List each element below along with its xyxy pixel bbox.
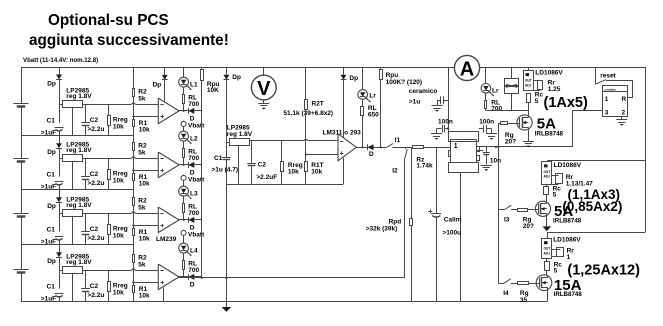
svg-text:Dp: Dp bbox=[232, 74, 241, 81]
resistor Rreg block3 10k bbox=[108, 213, 110, 224]
wire cell tap 1 bbox=[21, 135, 133, 137]
wire Q2 drain bbox=[546, 195, 548, 202]
svg-text:Rg: Rg bbox=[520, 290, 529, 297]
diode D block3 bbox=[188, 217, 190, 223]
diode Dp5 bbox=[226, 67, 228, 75]
resistor Rr3 1 bbox=[552, 249, 561, 251]
svg-text:5: 5 bbox=[554, 268, 558, 275]
LED Lr ammeter bbox=[485, 67, 487, 84]
svg-text:C1: C1 bbox=[214, 155, 223, 162]
svg-text:reg 1.8V: reg 1.8V bbox=[66, 147, 92, 154]
wire divider R2T-R1T bbox=[305, 110, 307, 162]
svg-text:OUT: OUT bbox=[544, 170, 551, 174]
resistor Rreg section5 10k bbox=[281, 141, 283, 162]
svg-text:L3: L3 bbox=[190, 190, 198, 197]
regulator LP2985 U3 bbox=[63, 210, 83, 217]
svg-text:5k: 5k bbox=[138, 204, 146, 211]
svg-text:5k: 5k bbox=[138, 149, 146, 156]
switch I1 bbox=[387, 144, 393, 148]
wire reset pin3 bbox=[573, 110, 602, 112]
svg-text:5: 5 bbox=[553, 192, 557, 199]
resistor Rg2 20 bbox=[511, 209, 518, 211]
capacitor C2 block4 bbox=[85, 270, 87, 288]
svg-text:C2: C2 bbox=[258, 161, 267, 168]
svg-text:700: 700 bbox=[188, 267, 199, 274]
svg-text:2: 2 bbox=[622, 110, 626, 117]
resistor R1 block4 10k bbox=[133, 286, 135, 293]
capacitor C1 section5 bbox=[222, 157, 231, 159]
resistor Rpu 10K bbox=[201, 67, 203, 69]
svg-text:Rreg: Rreg bbox=[113, 170, 128, 177]
svg-text:V: V bbox=[257, 78, 271, 100]
svg-text:C1: C1 bbox=[47, 118, 56, 125]
resistor Rc1 5 bbox=[527, 94, 531, 103]
wire I2 column bbox=[404, 160, 406, 161]
svg-text:C2: C2 bbox=[90, 117, 99, 124]
wire reg1 output bus bbox=[83, 104, 131, 106]
diode D main bbox=[367, 144, 369, 150]
voltmeter V bbox=[263, 67, 265, 75]
resistor R1 block2 10k bbox=[133, 174, 135, 181]
wire top rail left of ammeter bbox=[21, 67, 455, 69]
svg-text:LD1086V: LD1086V bbox=[554, 162, 582, 169]
op-amp comparator block4 bbox=[158, 264, 179, 290]
op-amp comparator block1 bbox=[158, 98, 179, 124]
wire pkg1 from rail bbox=[528, 67, 530, 71]
resistor R2 block4 5k bbox=[133, 245, 135, 255]
svg-text:>1uF: >1uF bbox=[41, 129, 56, 136]
wire Q2 source arrow bbox=[546, 216, 548, 226]
wire IC1 output row bbox=[477, 150, 483, 152]
svg-text:Vbatt (11-14.4V: nom.12.8): Vbatt (11-14.4V: nom.12.8) bbox=[23, 57, 98, 64]
wire LM311 ground pin bbox=[343, 158, 345, 184]
svg-text:35: 35 bbox=[520, 297, 528, 304]
node Vbatt terminal 4 bbox=[183, 229, 185, 232]
svg-text:Lr: Lr bbox=[369, 93, 376, 100]
svg-text:contatto: contatto bbox=[604, 88, 616, 92]
ground of reset box bbox=[621, 116, 623, 119]
battery cell B3 bbox=[13, 213, 28, 215]
battery cell B1 bbox=[13, 103, 28, 105]
wire Q3 drain bbox=[546, 271, 548, 275]
reset logic box bbox=[603, 86, 628, 117]
wire Q3 source to bottom rail bbox=[547, 291, 549, 302]
wire reg5 output bus to comparator bbox=[250, 140, 304, 142]
resistor R1 block1 10k bbox=[133, 120, 135, 127]
wire wired-OR row to I2 column bbox=[178, 277, 405, 279]
svg-text:Optional-su PCS: Optional-su PCS bbox=[48, 12, 169, 29]
resistor RL 650 bbox=[362, 99, 364, 107]
wire section5 ground bus bbox=[226, 184, 343, 186]
wire Q1 drain bbox=[528, 102, 530, 115]
wire divider to +input LM311 bbox=[306, 154, 338, 156]
diode Dp2 bbox=[59, 136, 61, 144]
switch I4 bbox=[498, 283, 504, 285]
diode Dp comparator supply bbox=[343, 67, 345, 75]
op-amp comparator block2 bbox=[158, 152, 179, 178]
ground of voltmeter bbox=[263, 100, 265, 103]
svg-text:ADJ: ADJ bbox=[544, 251, 551, 255]
svg-text:>2.2u: >2.2u bbox=[88, 126, 105, 133]
capacitor Calim >100u bbox=[436, 147, 438, 213]
svg-text:100K? (120): 100K? (120) bbox=[386, 79, 423, 86]
svg-text:>1uF: >1uF bbox=[41, 183, 56, 190]
battery cell B2 bbox=[13, 158, 28, 160]
svg-text:700: 700 bbox=[491, 106, 502, 113]
svg-text:D: D bbox=[369, 151, 374, 158]
svg-text:1.25: 1.25 bbox=[548, 86, 561, 93]
regulator LD1086V U6 bbox=[524, 71, 534, 91]
svg-text:Dp: Dp bbox=[47, 203, 56, 210]
svg-text:>32k (39k): >32k (39k) bbox=[366, 225, 398, 232]
svg-text:10K: 10K bbox=[207, 87, 219, 94]
svg-text:20?: 20? bbox=[505, 139, 516, 146]
switch I3 bbox=[498, 209, 505, 211]
svg-text:C2: C2 bbox=[90, 283, 99, 290]
transistor Q2 IRLB8748 5A bbox=[535, 201, 550, 216]
resistor Rreg block4 10k bbox=[108, 270, 110, 281]
svg-text:reg 1.8V: reg 1.8V bbox=[66, 202, 92, 209]
wire cell tap 3 bbox=[21, 244, 133, 246]
shunt box bbox=[511, 67, 513, 78]
svg-text:>1u: >1u bbox=[409, 98, 420, 105]
svg-text:>2.2u: >2.2u bbox=[88, 235, 105, 242]
LED L1 bbox=[183, 67, 185, 77]
battery cell B4 bbox=[13, 269, 28, 271]
svg-text:R2T: R2T bbox=[312, 100, 324, 107]
svg-text:1: 1 bbox=[454, 143, 458, 150]
wire section5 ground down bbox=[226, 184, 228, 301]
svg-text:D: D bbox=[190, 115, 195, 122]
resistor R2 block3 5k bbox=[133, 190, 135, 198]
diode Dp op-amp supply bbox=[164, 67, 166, 75]
op-amp comparator block3 bbox=[158, 207, 179, 233]
capacitor 100n left bbox=[447, 127, 449, 129]
wire right border bbox=[645, 67, 647, 232]
svg-text:Dp: Dp bbox=[47, 80, 56, 87]
svg-text:LM239: LM239 bbox=[156, 236, 177, 243]
diode Dp3 bbox=[59, 190, 61, 198]
svg-text:10k: 10k bbox=[139, 181, 150, 188]
resistor Rg3 35 bbox=[511, 283, 518, 285]
IC 1 block bbox=[449, 132, 479, 142]
svg-text:ADJ: ADJ bbox=[544, 175, 551, 179]
resistor Rr1 1.25 bbox=[534, 80, 540, 82]
svg-text:Rreg: Rreg bbox=[113, 116, 128, 123]
svg-text:I2: I2 bbox=[392, 168, 398, 175]
diode Dp4 bbox=[59, 245, 61, 253]
transistor Q3 IRLB8748 15A bbox=[536, 275, 552, 291]
svg-text:Dp: Dp bbox=[349, 75, 358, 82]
resistor RL block1 700 bbox=[183, 87, 185, 95]
svg-text:100n: 100n bbox=[479, 118, 494, 125]
capacitor 10n bbox=[486, 147, 488, 152]
wire bottom rail bbox=[21, 301, 547, 303]
svg-text:C1: C1 bbox=[47, 172, 56, 179]
svg-text:Rreg: Rreg bbox=[113, 225, 128, 232]
wire I1 to Rz bbox=[392, 147, 413, 149]
svg-text:Dp: Dp bbox=[47, 149, 56, 156]
diode Dp1 bbox=[59, 67, 61, 75]
svg-text:10k: 10k bbox=[113, 178, 124, 185]
ammeter A bbox=[454, 55, 479, 80]
diode D block1 bbox=[188, 108, 190, 114]
svg-text:C2: C2 bbox=[90, 171, 99, 178]
wire charge bus mid bbox=[547, 160, 645, 162]
wire divider to +input block1 bbox=[133, 116, 158, 118]
svg-text:LD1086V: LD1086V bbox=[553, 237, 581, 244]
capacitor C2 block2 bbox=[85, 158, 87, 176]
svg-text:10k: 10k bbox=[139, 236, 150, 243]
resistor Rreg block2 10k bbox=[108, 158, 110, 169]
wire divider to +input block3 bbox=[133, 225, 158, 227]
resistor RL block4 700 bbox=[183, 253, 185, 261]
svg-text:(1Ax5): (1Ax5) bbox=[544, 95, 588, 111]
wire pkg3 input bbox=[547, 232, 549, 238]
svg-text:5k: 5k bbox=[138, 261, 146, 268]
wire IC1 bottom pin bbox=[460, 173, 462, 302]
wire bbox=[21, 107, 23, 159]
ground arrow under bottom rail bbox=[226, 302, 228, 308]
wire LM311 output row bbox=[356, 147, 367, 149]
resistor Rr2 1.13/1.47 bbox=[551, 175, 559, 177]
node Vbatt terminal 3 bbox=[183, 174, 185, 177]
capacitor 100n right bbox=[479, 128, 483, 130]
svg-text:10k: 10k bbox=[311, 169, 322, 176]
capacitor C1 block3 bbox=[55, 236, 64, 238]
regulator LD1086V U7 bbox=[542, 162, 552, 185]
svg-text:10k: 10k bbox=[113, 233, 124, 240]
resistor R2 block1 5k bbox=[133, 67, 135, 88]
svg-text:3: 3 bbox=[605, 110, 609, 117]
svg-text:D: D bbox=[190, 169, 195, 176]
wire wired-OR rail bbox=[201, 81, 203, 278]
svg-text:1: 1 bbox=[567, 254, 571, 261]
svg-text:reset: reset bbox=[600, 72, 616, 79]
wire divider to +input block4 bbox=[133, 282, 158, 284]
wire IC supply column bbox=[448, 67, 450, 131]
resistor R1 block3 10k bbox=[133, 229, 135, 236]
svg-text:D: D bbox=[190, 224, 195, 231]
svg-text:1: 1 bbox=[605, 96, 609, 103]
resistor Rz 1.74k bbox=[413, 146, 424, 149]
svg-text:Rreg: Rreg bbox=[113, 282, 128, 289]
wire charge bus low bbox=[547, 232, 645, 234]
svg-text:C1: C1 bbox=[47, 227, 56, 234]
wire gate rail up to Q1 gate bbox=[498, 123, 500, 147]
svg-text:LD1086V: LD1086V bbox=[535, 69, 563, 76]
svg-text:I3: I3 bbox=[504, 217, 510, 224]
capacitor ceramic >1u bbox=[444, 100, 449, 102]
svg-text:100n: 100n bbox=[438, 118, 453, 125]
wire reg3 output bus bbox=[83, 213, 131, 215]
switch reset bbox=[595, 67, 597, 84]
svg-text:5: 5 bbox=[535, 98, 539, 105]
svg-text:>1uF: >1uF bbox=[41, 295, 56, 302]
regulator LP2985 U4 bbox=[63, 267, 83, 274]
svg-text:>2.2u: >2.2u bbox=[88, 292, 105, 299]
wire output row block2 bbox=[179, 164, 188, 166]
svg-text:aggiunta successivamente!: aggiunta successivamente! bbox=[29, 32, 229, 49]
svg-text:C2: C2 bbox=[90, 226, 99, 233]
svg-text:10n: 10n bbox=[490, 157, 501, 164]
resistor Rpu 100K bbox=[380, 67, 382, 70]
svg-text:51.1k (39+6.8x2): 51.1k (39+6.8x2) bbox=[283, 110, 333, 117]
svg-text:10k: 10k bbox=[113, 124, 124, 131]
wire cell tap 2 bbox=[21, 189, 133, 191]
svg-text:L1: L1 bbox=[190, 81, 198, 88]
wire op-amp4 ground pin bbox=[163, 288, 165, 302]
wire Rz to IC1 bbox=[424, 147, 451, 149]
wire output row block1 bbox=[179, 110, 188, 112]
diode D block2 bbox=[188, 162, 190, 168]
svg-text:ADJ: ADJ bbox=[525, 83, 532, 87]
svg-text:reg 1.8V: reg 1.8V bbox=[227, 131, 253, 138]
regulator LD1086V U8 bbox=[542, 239, 552, 259]
svg-text:>100u: >100u bbox=[443, 230, 462, 237]
wire bbox=[21, 162, 23, 214]
wire pkg2 input bbox=[547, 161, 549, 162]
wire output row block3 bbox=[179, 219, 188, 221]
capacitor C2 section5 bbox=[251, 141, 253, 163]
svg-text:1.74k: 1.74k bbox=[416, 163, 433, 170]
svg-text:IRLB8748: IRLB8748 bbox=[553, 217, 582, 224]
svg-text:20?: 20? bbox=[523, 223, 534, 230]
capacitor C2 block1 bbox=[85, 104, 87, 122]
svg-text:700: 700 bbox=[188, 155, 199, 162]
wire divider to +input block2 bbox=[133, 170, 158, 172]
svg-text:I1: I1 bbox=[395, 137, 401, 144]
svg-text:Vbatt: Vbatt bbox=[188, 123, 205, 130]
svg-text:5k: 5k bbox=[138, 95, 146, 102]
resistor RL block2 700 bbox=[183, 141, 185, 149]
resistor R2T 51.1k bbox=[305, 67, 307, 100]
capacitor C1 block1 bbox=[55, 127, 64, 129]
wire drain node row bbox=[486, 110, 529, 112]
LED Lr bbox=[362, 67, 364, 90]
svg-text:OUT: OUT bbox=[544, 247, 551, 251]
wire bbox=[21, 217, 23, 269]
svg-text:Calim: Calim bbox=[444, 217, 462, 224]
resistor Rc3 5 bbox=[546, 258, 548, 261]
svg-text:IRLB8748: IRLB8748 bbox=[535, 131, 564, 138]
svg-text:IRLB8748: IRLB8748 bbox=[554, 291, 583, 298]
svg-text:Dp: Dp bbox=[47, 258, 56, 265]
wire reg4 output bus bbox=[83, 270, 131, 272]
svg-text:reg 1.8V: reg 1.8V bbox=[66, 93, 92, 100]
svg-text:10k: 10k bbox=[139, 127, 150, 134]
svg-text:ceramico: ceramico bbox=[409, 88, 438, 95]
resistor RL 700 ammeter bbox=[485, 93, 487, 100]
switch I2 bbox=[405, 147, 407, 149]
svg-text:700: 700 bbox=[188, 210, 199, 217]
wire reg5 ground pin bbox=[238, 146, 240, 185]
transistor Q1 IRLB8748 5A bbox=[517, 115, 532, 130]
wire gate rail down bbox=[498, 147, 500, 283]
svg-text:650: 650 bbox=[368, 112, 379, 119]
svg-text:Dp: Dp bbox=[153, 82, 162, 89]
svg-text:10k: 10k bbox=[113, 290, 124, 297]
wire reg2 output bus bbox=[83, 158, 131, 160]
capacitor C2 block3 bbox=[85, 213, 87, 231]
wire bbox=[21, 272, 23, 301]
svg-text:Lr: Lr bbox=[492, 88, 499, 95]
svg-text:Vbatt: Vbatt bbox=[188, 177, 205, 184]
regulator LP2985 U2 bbox=[63, 155, 83, 162]
regulator LP2985 U1 bbox=[63, 101, 83, 108]
svg-text:reg 1.8V: reg 1.8V bbox=[66, 259, 92, 266]
svg-text:OUT: OUT bbox=[525, 79, 532, 83]
diode D block4 bbox=[188, 274, 190, 280]
svg-text:LM311 o 293: LM311 o 293 bbox=[323, 129, 362, 136]
svg-text:R: R bbox=[622, 96, 627, 103]
capacitor C1 block2 bbox=[55, 181, 64, 183]
svg-text:L2: L2 bbox=[190, 135, 198, 142]
capacitor C1 block4 bbox=[55, 293, 64, 295]
resistor Rreg block1 10k bbox=[108, 104, 110, 115]
svg-text:>2.2u: >2.2u bbox=[88, 180, 105, 187]
resistor Rpd >32k bbox=[411, 147, 413, 218]
wire top rail right of ammeter bbox=[480, 67, 646, 69]
svg-text:Vbatt: Vbatt bbox=[188, 232, 205, 239]
wire left battery rail bbox=[21, 67, 23, 104]
svg-text:L4: L4 bbox=[190, 247, 198, 254]
svg-text:10k: 10k bbox=[139, 293, 150, 300]
svg-text:700: 700 bbox=[188, 101, 199, 108]
svg-text:I4: I4 bbox=[503, 290, 509, 297]
svg-text:>1uF: >1uF bbox=[41, 238, 56, 245]
ground of Q1 source bbox=[528, 130, 530, 141]
wire reset to box bbox=[606, 80, 633, 82]
wire output row block4 bbox=[179, 276, 188, 278]
svg-text:D: D bbox=[190, 281, 195, 288]
svg-text:A: A bbox=[460, 59, 474, 81]
resistor Rg1 20 bbox=[498, 123, 500, 125]
node Vbatt terminal 2 bbox=[183, 120, 185, 123]
resistor Rc2 5 bbox=[546, 184, 548, 186]
resistor R1T 10k bbox=[305, 162, 308, 172]
svg-text:>1u (4.7): >1u (4.7) bbox=[212, 166, 239, 173]
svg-text:C1: C1 bbox=[47, 284, 56, 291]
svg-text:10k: 10k bbox=[288, 169, 299, 176]
resistor RL block3 700 bbox=[183, 196, 185, 204]
resistor R2 block2 5k bbox=[133, 136, 135, 143]
svg-text:>2.2uF: >2.2uF bbox=[256, 174, 277, 181]
